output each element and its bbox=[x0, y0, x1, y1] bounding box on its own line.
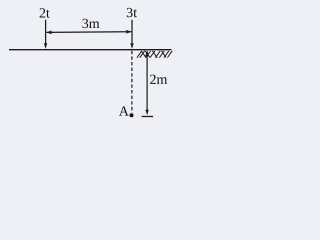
force arrow 3t bbox=[130, 20, 133, 49]
label 2t bbox=[40, 8, 50, 17]
dashed projection line below 3t bbox=[131, 51, 133, 113]
ground line (beam surface) bbox=[9, 49, 172, 51]
dimension line 2m (vertical) bbox=[142, 50, 154, 116]
label A bbox=[119, 106, 129, 115]
point A dot bbox=[130, 113, 134, 117]
label 2m bbox=[150, 75, 167, 84]
force arrow 2t bbox=[44, 20, 47, 49]
label 3t bbox=[127, 8, 137, 17]
label 3m bbox=[82, 19, 99, 28]
dimension line 3m bbox=[46, 30, 131, 34]
ground hatching (right support) bbox=[137, 51, 172, 58]
